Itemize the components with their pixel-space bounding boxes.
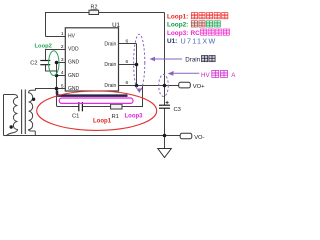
ground symbol bbox=[158, 149, 172, 158]
node junction bbox=[55, 87, 59, 91]
svg-text:GND: GND bbox=[68, 60, 80, 66]
svg-text:C3: C3 bbox=[174, 107, 181, 113]
svg-text:6: 6 bbox=[126, 38, 129, 44]
svg-text:HV: HV bbox=[68, 33, 76, 39]
wire VDD pin2 to C2 bbox=[46, 50, 66, 61]
svg-text:Loop3: Loop3 bbox=[125, 113, 144, 119]
wire snubber C1 to R1 bbox=[83, 106, 111, 108]
svg-text:GND: GND bbox=[68, 86, 80, 92]
wire VO+ tap bbox=[165, 85, 179, 87]
transformer primary left vertical bbox=[3, 95, 5, 136]
thick ground trace bar bbox=[57, 91, 128, 96]
node junction bbox=[55, 61, 59, 65]
wire drain pin bottom to VO+ junction bbox=[119, 85, 165, 87]
resistor R1 bbox=[111, 104, 122, 109]
svg-text:1: 1 bbox=[61, 31, 64, 37]
svg-text:Loop2: Loop2 bbox=[35, 44, 52, 50]
svg-text:C2: C2 bbox=[30, 60, 37, 66]
svg-text:C1: C1 bbox=[72, 114, 79, 120]
wire pin5 GND to transformer bbox=[36, 89, 66, 91]
transformer primary bottom lead bbox=[6, 133, 14, 137]
svg-text:R2: R2 bbox=[91, 4, 98, 10]
transformer phase dot secondary bbox=[32, 98, 35, 101]
wire bottom rail bbox=[4, 135, 165, 137]
transformer core bbox=[21, 90, 23, 135]
node junction bbox=[135, 84, 139, 88]
transformer secondary winding bbox=[29, 90, 36, 131]
svg-text:3: 3 bbox=[61, 57, 64, 63]
svg-text:Loop2:: Loop2: bbox=[167, 22, 188, 29]
transformer secondary bottom stub bbox=[34, 131, 36, 136]
wire drain bus bbox=[136, 44, 138, 86]
svg-text:Drain: Drain bbox=[104, 62, 116, 68]
svg-text:GND: GND bbox=[68, 73, 80, 79]
wire snubber R1 to drain bbox=[121, 86, 143, 107]
svg-text:Drain: Drain bbox=[104, 41, 116, 47]
svg-text:6: 6 bbox=[126, 80, 129, 86]
wire GND vertical to snubber bbox=[57, 63, 79, 107]
svg-text:2: 2 bbox=[61, 44, 64, 50]
loop3 magenta rounded rect bbox=[59, 98, 133, 103]
svg-text:6: 6 bbox=[126, 59, 129, 65]
svg-text:HV: HV bbox=[201, 72, 210, 79]
dashed ellipse drain bus bbox=[134, 34, 145, 91]
capacitor C2 bbox=[40, 60, 50, 62]
svg-text:U711XW: U711XW bbox=[181, 36, 217, 45]
resistor R2 bbox=[89, 10, 99, 14]
loop2 green ellipse bbox=[49, 51, 59, 76]
svg-text:VO-: VO- bbox=[194, 135, 204, 141]
op IC body U1 bbox=[65, 28, 118, 91]
node junction bbox=[55, 74, 59, 78]
wire VO- tap bbox=[165, 135, 181, 137]
arrow HV winding label bbox=[172, 72, 199, 74]
svg-text:R1: R1 bbox=[112, 114, 119, 120]
node junction bbox=[163, 134, 167, 138]
wire pin4 GND bbox=[57, 75, 66, 77]
capacitor C3 polarized bbox=[159, 104, 170, 106]
transformer primary top stub bbox=[4, 94, 15, 96]
transformer phase dot primary bbox=[10, 125, 13, 128]
node junction bbox=[135, 63, 139, 67]
terminal VO- bbox=[180, 133, 192, 139]
wire top loop from pin1 through R2 to right bus bbox=[46, 13, 165, 37]
svg-text:Drain: Drain bbox=[185, 57, 200, 64]
wire drain pin middle bbox=[119, 64, 137, 66]
svg-text:4: 4 bbox=[61, 70, 64, 76]
wire C2 bottom to gnd vertical bbox=[46, 65, 57, 72]
svg-text:VDD: VDD bbox=[68, 47, 79, 53]
svg-text:U1:: U1: bbox=[167, 38, 177, 45]
svg-text:VO+: VO+ bbox=[193, 84, 205, 90]
wire right bus vertical bbox=[164, 13, 166, 106]
svg-text:U1: U1 bbox=[112, 22, 120, 29]
svg-text:5: 5 bbox=[61, 83, 64, 89]
capacitor C1 bbox=[78, 102, 80, 111]
wire pin3 GND bbox=[57, 62, 66, 64]
transformer primary winding bbox=[13, 95, 17, 133]
wire drain pin top bbox=[119, 43, 137, 45]
svg-text:Loop1:: Loop1: bbox=[167, 13, 188, 20]
wire pin 1 stub bbox=[46, 36, 66, 38]
svg-text:Drain: Drain bbox=[104, 83, 116, 89]
arrow Drain pin label bbox=[154, 58, 182, 60]
loop1 red ellipse bbox=[37, 91, 157, 130]
node junction bbox=[163, 84, 167, 88]
terminal VO+ bbox=[179, 82, 191, 88]
svg-text:Loop1: Loop1 bbox=[93, 119, 112, 125]
dashed ellipse VO+ node bbox=[159, 75, 169, 97]
